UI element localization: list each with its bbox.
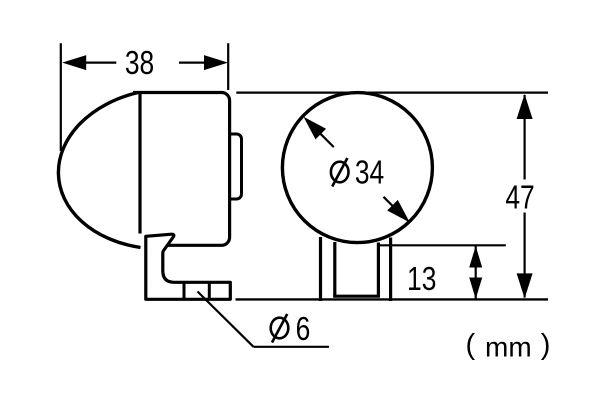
svg-text:38: 38 <box>125 45 154 81</box>
bracket leg outer-left (front view) <box>319 237 322 301</box>
phi34 arrowhead upper-left <box>304 117 327 140</box>
phi6 leader diagonal line <box>198 292 254 347</box>
bracket base bar (front view) <box>333 295 380 298</box>
lamp body (side view housing) <box>133 93 230 246</box>
13 arrowhead down <box>469 278 482 300</box>
38 arrowhead left <box>62 55 86 70</box>
svg-text:34: 34 <box>355 155 384 191</box>
13 arrowhead up <box>469 246 482 268</box>
phi34 arrowhead lower-right <box>387 200 410 223</box>
bolt hole section line left <box>183 282 186 299</box>
bracket leg outer-right (front view) <box>389 238 392 302</box>
svg-text:47: 47 <box>505 180 534 216</box>
phi34 diameter line lower segment <box>384 197 396 209</box>
lamp face circle (front view) <box>282 93 432 243</box>
svg-text:13: 13 <box>407 261 436 297</box>
13 dim upper extension line <box>380 244 506 246</box>
bracket leg inner-right (front view) <box>377 243 380 298</box>
top extension line (circle top / 47 dim) <box>236 91 548 93</box>
13 dim line <box>475 246 477 299</box>
svg-text:(: ( <box>466 329 476 361</box>
bracket leg inner-left (front view) <box>333 242 336 298</box>
lens arc (side view front of lamp) <box>58 93 140 248</box>
bottom baseline extension line <box>236 298 549 300</box>
svg-text:6: 6 <box>296 311 311 347</box>
38 dim line right segment <box>179 61 210 63</box>
phi symbol of phi6 label <box>271 314 289 343</box>
47 dim line lower segment <box>523 213 525 298</box>
38 dim right extension line <box>227 43 229 90</box>
mounting bracket (side view, L-shape) <box>146 234 231 299</box>
47 dim line upper segment <box>523 95 525 180</box>
rear tab on lamp body <box>230 134 242 199</box>
38 dim line left segment <box>80 61 116 63</box>
phi34 diameter line upper segment <box>318 131 334 147</box>
lens/body divider line <box>138 93 141 234</box>
svg-text:): ) <box>541 329 551 361</box>
38 dim left extension line <box>60 43 62 151</box>
phi6 leader underline <box>254 346 330 348</box>
bolt hole section line right <box>208 282 211 299</box>
47 arrowhead up <box>517 94 533 119</box>
svg-text:mm: mm <box>485 332 532 363</box>
38 arrowhead right <box>204 55 228 70</box>
phi symbol of phi34 label <box>331 158 349 187</box>
47 arrowhead down <box>517 273 533 298</box>
